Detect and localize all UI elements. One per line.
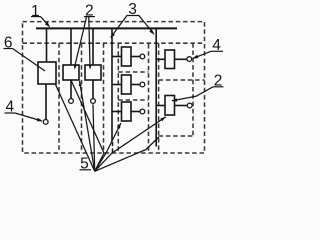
dashed sub-box B right edge xyxy=(103,43,105,153)
wire: M3 right stub xyxy=(131,111,140,113)
wire: dropper to contact S2 xyxy=(92,29,94,66)
terminal circle under block 6 xyxy=(43,120,48,125)
arrowhead of label 5 leader at R2 xyxy=(160,117,166,122)
dashed sub-box A left edge xyxy=(58,43,60,153)
contact S1 (square) xyxy=(63,65,79,80)
terminal circle under contact S1 xyxy=(69,99,74,104)
wire: M1 left stub xyxy=(112,56,122,58)
dashed right block divider xyxy=(159,79,205,81)
underline of label 2 (top) xyxy=(84,16,95,18)
arrowhead of label 4 (right) leader xyxy=(192,55,198,59)
wire: middle vertical bus xyxy=(111,29,113,142)
relay unit R2 (rect) xyxy=(165,96,175,116)
dashed right block bottom edge xyxy=(159,135,193,137)
dashed right block left edge xyxy=(158,43,160,153)
arrowhead of label 3 leader at right bus xyxy=(149,29,154,35)
label 5 leader to S2 terminal xyxy=(93,104,95,171)
dashed middle block divider 1 xyxy=(118,71,148,73)
relay unit R1 (rect) xyxy=(165,50,175,69)
arrowhead of label 4 (left) leader xyxy=(37,118,43,121)
wire: M2 left stub xyxy=(112,84,122,86)
wire: M2 right stub xyxy=(131,84,140,86)
wire: R1 left stub xyxy=(156,58,165,60)
wire: stem below block 6 xyxy=(45,84,47,119)
label 5 leader to right block corner xyxy=(95,137,159,171)
wire: R1 right stub xyxy=(175,58,187,60)
arrowhead of label 5 leader at S1 corner xyxy=(79,81,82,86)
wire: stem below contact S1 xyxy=(70,80,72,98)
contact S2 (square) xyxy=(85,65,101,80)
arrowhead of label 2 leader at S2 xyxy=(88,65,91,70)
relay unit M1 (rect) xyxy=(122,47,132,66)
arrowhead of label 1 leader xyxy=(45,22,50,28)
label 5 leader to S1 corner xyxy=(80,81,95,171)
label 2 (right) leader xyxy=(172,87,213,101)
svg-text:1: 1 xyxy=(31,3,40,20)
underline of label 3 xyxy=(127,15,140,17)
label 1 leader xyxy=(41,17,49,26)
terminal circle under contact S2 xyxy=(91,99,96,104)
label 6 leader xyxy=(13,49,46,72)
block 6 (square) xyxy=(38,62,56,84)
label 3 leader to middle bus xyxy=(111,16,127,38)
label 5 leader to block 6 corner xyxy=(56,85,95,172)
wire: right vertical bus xyxy=(155,29,157,147)
wire: dashed continuation of middle bus xyxy=(112,142,114,153)
relay unit M2 (rect) xyxy=(122,75,132,94)
label 2 (top) leader to S1 xyxy=(75,17,87,67)
label 3 leader to right bus xyxy=(139,16,153,33)
arrowhead of label 2 leader at S1 xyxy=(74,64,77,69)
terminal circle M1 xyxy=(140,54,145,59)
wire: M3 left stub xyxy=(112,111,122,113)
underline of label 4 (right) xyxy=(211,50,223,52)
wire: R2 right stub xyxy=(175,105,188,107)
wire: dropper to block 6 xyxy=(46,29,48,63)
label 4 (right) leader xyxy=(193,51,211,58)
dashed middle block divider 2 xyxy=(118,99,148,101)
underline of label 5 xyxy=(80,169,92,171)
wire: dropper to contact S1 xyxy=(70,29,72,66)
arrowhead of label 3 leader at middle bus xyxy=(110,33,115,38)
terminal circle M3 xyxy=(140,109,145,114)
terminal circle R1 xyxy=(187,57,192,62)
arrowhead of label 2 (right) leader xyxy=(172,98,178,101)
underline of label 2 (right) xyxy=(213,86,224,88)
wire: M1 right stub xyxy=(131,56,140,58)
relay unit M3 (rect) xyxy=(122,102,132,121)
label 2 (top) leader to S2 xyxy=(89,17,90,67)
wire: stem below contact S2 xyxy=(92,80,94,98)
label 5 leader to R2 corner xyxy=(95,117,166,172)
terminal circle M2 xyxy=(140,82,145,87)
dashed middle block right edge xyxy=(148,44,150,153)
wire: R2 left stub xyxy=(156,105,165,107)
dashed right block right edge xyxy=(192,43,194,136)
dashed middle block left edge xyxy=(117,44,119,153)
underline of label 1 xyxy=(31,16,41,18)
label 5 leader to S1 stem wire xyxy=(71,81,104,172)
dashed divider between sub-box A and B xyxy=(81,43,83,153)
underline of label 4 (left) xyxy=(5,112,16,114)
underline of label 6 xyxy=(4,48,13,50)
terminal circle R2 xyxy=(187,103,192,108)
outer dashed enclosure xyxy=(23,22,205,153)
dashed horizontal separator y=43 xyxy=(23,42,205,44)
arrowhead of label 5 leader at M3 xyxy=(117,123,121,129)
label 5 leader to M3 corner xyxy=(95,123,121,171)
wire: top horizontal supply bus xyxy=(36,27,177,29)
label 4 (left) leader xyxy=(15,113,42,121)
